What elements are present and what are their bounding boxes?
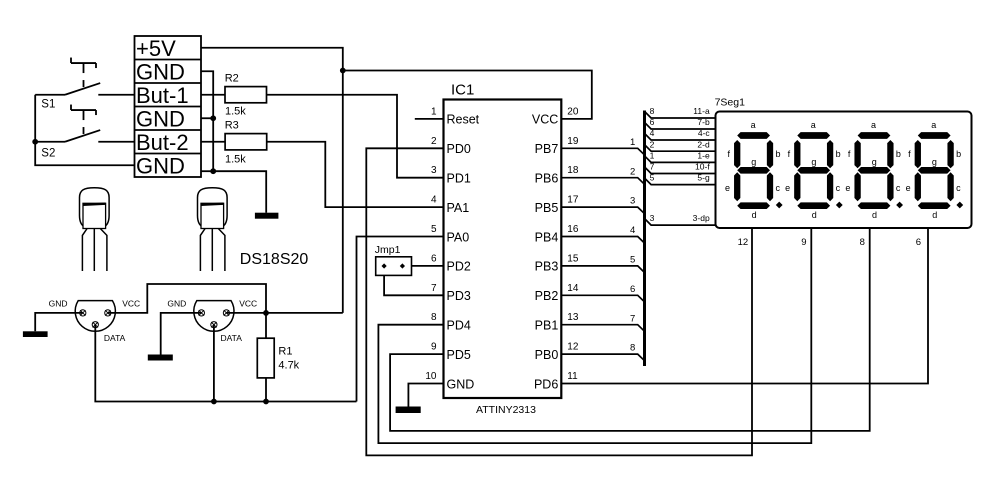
IC1 left pin numbers 1-10 — [425, 106, 437, 382]
svg-text:GND: GND — [136, 106, 185, 131]
sensor 1 DS18S20 (bottom view) — [75, 301, 115, 332]
svg-text:PB2: PB2 — [535, 289, 559, 303]
ground symbol (sensor1) — [23, 331, 48, 337]
svg-text:GND: GND — [49, 298, 68, 308]
svg-text:e: e — [785, 183, 790, 193]
svg-text:PB0: PB0 — [535, 348, 559, 362]
svg-text:9: 9 — [431, 342, 437, 353]
wire bus to display 5-g — [645, 178, 716, 185]
wire R1 to DATA bus — [265, 378, 267, 402]
svg-text:10: 10 — [425, 371, 437, 382]
svg-text:7-b: 7-b — [697, 117, 710, 127]
wire bus to display 11-a — [645, 111, 716, 118]
svg-text:6: 6 — [630, 284, 635, 295]
svg-text:VCC: VCC — [122, 298, 140, 308]
wire GND pin to ground — [408, 384, 443, 407]
wire PA0 to DATA bus — [357, 237, 444, 402]
svg-text:2: 2 — [650, 139, 655, 149]
svg-text:PD1: PD1 — [447, 172, 471, 186]
svg-text:11-a: 11-a — [693, 106, 710, 116]
svg-text:b: b — [776, 149, 781, 159]
svg-text:But-1: But-1 — [136, 83, 189, 108]
wire PB7 to bus — [561, 148, 644, 155]
svg-text:c: c — [896, 183, 901, 193]
svg-text:c: c — [836, 183, 841, 193]
svg-text:b: b — [956, 149, 961, 159]
svg-text:6: 6 — [650, 117, 655, 127]
svg-text:PD4: PD4 — [447, 319, 471, 333]
svg-text:VCC: VCC — [532, 113, 558, 127]
wire bus to display 1-e — [645, 156, 716, 163]
svg-text:17: 17 — [567, 195, 579, 206]
svg-text:9: 9 — [801, 237, 806, 248]
ground symbol (sensor2) — [148, 355, 173, 361]
wire PD4 to display common 9 — [378, 228, 811, 443]
svg-text:e: e — [725, 183, 730, 193]
svg-text:3: 3 — [650, 213, 655, 223]
svg-text:GND: GND — [136, 59, 185, 84]
svg-text:a: a — [931, 120, 936, 130]
svg-text:c: c — [776, 183, 781, 193]
svg-text:2: 2 — [431, 136, 437, 147]
ground symbol (IC1) — [396, 407, 421, 414]
svg-text:a: a — [751, 120, 756, 130]
svg-text:1: 1 — [650, 151, 655, 161]
wire PD6 to display common 6 — [561, 228, 928, 384]
svg-text:19: 19 — [567, 136, 579, 147]
svg-text:3: 3 — [431, 165, 437, 176]
svg-text:4: 4 — [630, 225, 635, 236]
svg-text:R3: R3 — [225, 119, 239, 131]
wire GND row6 stub — [201, 170, 213, 172]
svg-text:11: 11 — [567, 371, 578, 382]
svg-text:5: 5 — [650, 173, 655, 183]
svg-text:e: e — [906, 183, 911, 193]
wire bus to display 2-d — [645, 145, 716, 152]
svg-text:8: 8 — [630, 343, 635, 354]
wire GND row4 stub — [201, 117, 213, 119]
wire sensor2 GND — [161, 313, 202, 355]
svg-text:1.5k: 1.5k — [225, 105, 246, 117]
switch S2 pushbutton — [35, 105, 134, 142]
svg-text:PB6: PB6 — [535, 172, 559, 186]
svg-text:GND: GND — [447, 377, 475, 391]
svg-text:R2: R2 — [225, 73, 239, 85]
svg-text:12: 12 — [567, 342, 579, 353]
svg-text:GND: GND — [167, 298, 186, 308]
svg-text:DATA: DATA — [104, 333, 126, 343]
wire PD5 to display common 8 — [390, 228, 870, 431]
svg-text:DATA: DATA — [221, 333, 243, 343]
pin 1 Reset stub — [415, 118, 444, 120]
svg-text:3: 3 — [630, 196, 635, 207]
svg-text:g: g — [872, 157, 877, 167]
wire PB3 to bus — [561, 266, 644, 273]
wire PB0 to bus — [561, 354, 644, 361]
junction DATA sensor2 — [211, 399, 217, 405]
junction GND row6 — [210, 168, 216, 174]
svg-text:4: 4 — [431, 195, 437, 206]
junction +5V branch — [340, 68, 346, 74]
svg-text:4-c: 4-c — [698, 128, 711, 138]
switch S1 pushbutton — [35, 58, 134, 95]
wire VCC node to +5V rail — [266, 312, 343, 314]
svg-text:14: 14 — [567, 283, 579, 294]
svg-text:VCC: VCC — [239, 298, 257, 308]
svg-text:PB5: PB5 — [535, 201, 559, 215]
IC1 left pin names — [447, 113, 480, 392]
wire But-2 to R3 — [201, 141, 225, 143]
svg-text:Jmp1: Jmp1 — [375, 244, 401, 256]
svg-text:5: 5 — [630, 255, 635, 266]
bus B1 vertical — [643, 111, 646, 367]
svg-text:8: 8 — [431, 312, 437, 323]
IC1 right pin numbers 20-11 — [567, 106, 579, 382]
wire Jmp1 to PD3 — [384, 275, 443, 295]
svg-text:15: 15 — [567, 253, 579, 264]
svg-text:b: b — [896, 149, 901, 159]
svg-text:+5V: +5V — [136, 36, 176, 61]
svg-text:GND: GND — [136, 153, 185, 178]
svg-text:7: 7 — [650, 162, 655, 172]
wire But-1 to R2 — [201, 94, 225, 96]
svg-text:1: 1 — [431, 106, 437, 117]
digit 4 segment labels — [906, 120, 962, 220]
digit 2 segment labels — [785, 120, 841, 220]
ground symbol (table GND) — [255, 213, 279, 219]
svg-text:PB1: PB1 — [535, 319, 559, 333]
svg-text:7Seg1: 7Seg1 — [715, 97, 746, 109]
resistor R3 — [225, 134, 267, 150]
svg-text:2: 2 — [630, 166, 635, 177]
digit 4 segments — [915, 132, 964, 209]
svg-text:S1: S1 — [41, 99, 55, 111]
svg-text:d: d — [932, 210, 937, 220]
wire bus to display 7-b — [645, 122, 716, 129]
digit 1 segment labels — [725, 120, 781, 220]
svg-text:PB4: PB4 — [535, 230, 559, 244]
svg-text:4: 4 — [650, 128, 655, 138]
svg-text:But-2: But-2 — [136, 130, 189, 155]
svg-text:2-d: 2-d — [697, 139, 710, 149]
wire S1/S2 common to GND row — [35, 95, 134, 166]
junction R1-DATA — [263, 399, 269, 405]
junction GND row4 — [210, 115, 216, 121]
svg-text:20: 20 — [567, 106, 579, 117]
svg-text:1: 1 — [630, 137, 635, 148]
sensor 2 DS18S20 (bottom view) — [194, 301, 234, 332]
svg-text:PB3: PB3 — [535, 260, 559, 274]
svg-text:1.5k: 1.5k — [225, 154, 246, 166]
svg-text:S2: S2 — [41, 148, 55, 160]
wire bus to display 10-f — [645, 167, 716, 174]
svg-text:PD0: PD0 — [447, 142, 471, 156]
IC1 right pin names — [532, 113, 558, 392]
wire PB4 to bus — [561, 237, 644, 244]
svg-text:8: 8 — [860, 237, 865, 248]
svg-text:PD5: PD5 — [447, 348, 471, 362]
svg-text:a: a — [811, 120, 816, 130]
svg-text:g: g — [811, 157, 816, 167]
svg-text:13: 13 — [567, 312, 579, 323]
wire Jmp1 to PD2 — [412, 265, 444, 267]
svg-text:PB7: PB7 — [535, 142, 559, 156]
svg-text:PD3: PD3 — [447, 289, 471, 303]
svg-text:10-f: 10-f — [695, 162, 710, 172]
connector table X1 (+5V/GND/But-1/GND/But-2/GND) — [135, 36, 202, 179]
svg-text:g: g — [751, 157, 756, 167]
wire VCC to R1 — [265, 313, 267, 338]
svg-text:3-dp: 3-dp — [693, 213, 710, 223]
resistor R2 — [225, 87, 267, 103]
svg-text:a: a — [871, 120, 876, 130]
svg-text:8: 8 — [650, 106, 655, 116]
wire R2 to PD1 — [267, 95, 444, 178]
op IC1 ATTINY2313 body — [444, 100, 562, 399]
svg-text:DS18S20: DS18S20 — [240, 251, 309, 268]
svg-text:Reset: Reset — [447, 113, 480, 127]
svg-text:d: d — [752, 210, 757, 220]
resistor R1 — [257, 338, 274, 378]
digit 1 segments — [734, 132, 783, 209]
wire PB5 to bus — [561, 207, 644, 214]
svg-text:5-g: 5-g — [697, 173, 710, 183]
svg-text:18: 18 — [567, 165, 579, 176]
svg-text:c: c — [956, 183, 961, 193]
jumper Jmp1 — [376, 257, 412, 276]
wire GND to ground symbol — [213, 171, 266, 213]
wire bus to display 4-c — [645, 133, 716, 140]
DS18S20 package 2 (TO-92 side view) — [198, 188, 228, 271]
svg-text:b: b — [836, 149, 841, 159]
svg-text:16: 16 — [567, 224, 579, 235]
digit 2 segments — [794, 132, 843, 209]
wire sensor2 VCC — [226, 312, 266, 314]
svg-text:PA0: PA0 — [447, 230, 470, 244]
wire sensor2 DATA — [213, 325, 215, 402]
wire PD0 to display common 12 — [366, 148, 752, 455]
display 7Seg1 body — [716, 112, 972, 229]
svg-text:ATTINY2313: ATTINY2313 — [476, 404, 536, 416]
svg-text:12: 12 — [738, 237, 749, 248]
svg-text:5: 5 — [431, 224, 437, 235]
svg-text:PD2: PD2 — [447, 260, 471, 274]
wire sensor1 GND — [35, 313, 83, 331]
svg-text:7: 7 — [630, 313, 635, 324]
svg-text:7: 7 — [431, 283, 437, 294]
svg-text:6: 6 — [431, 253, 437, 264]
wire +5V rail — [201, 48, 343, 313]
svg-text:4.7k: 4.7k — [278, 359, 299, 371]
digit 3 segment labels — [845, 120, 901, 220]
svg-text:d: d — [812, 210, 817, 220]
wire PB2 to bus — [561, 295, 644, 302]
wire bus to display 3-dp — [645, 219, 716, 226]
wire R3 to PA1 — [267, 142, 444, 207]
wire +5V to VCC pin — [343, 71, 592, 119]
wire sensor1 VCC to +5V — [108, 284, 266, 313]
wire sensor1 DATA bus — [95, 325, 356, 402]
svg-text:PA1: PA1 — [447, 201, 470, 215]
svg-text:d: d — [872, 210, 877, 220]
junction S2 common — [32, 139, 38, 145]
junction VCC node — [263, 310, 269, 316]
svg-text:PD6: PD6 — [534, 377, 558, 391]
svg-text:e: e — [845, 183, 850, 193]
svg-text:R1: R1 — [278, 346, 292, 358]
wire GND rows vertical — [201, 71, 213, 171]
svg-text:IC1: IC1 — [451, 82, 474, 99]
digit 3 segments — [854, 132, 903, 209]
svg-text:6: 6 — [916, 237, 921, 248]
DS18S20 package 1 (TO-92 side view) — [80, 188, 110, 271]
wire PB6 to bus — [561, 178, 644, 185]
svg-text:1-e: 1-e — [697, 151, 710, 161]
svg-text:g: g — [932, 157, 937, 167]
wire PB1 to bus — [561, 325, 644, 332]
